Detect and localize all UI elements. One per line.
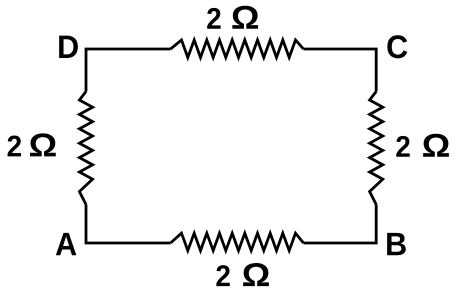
value label 2 Ohm (bottom resistor R3) xyxy=(216,263,269,286)
node D label xyxy=(59,36,78,58)
value label 2 Ohm (top resistor R1) xyxy=(207,6,258,29)
resistor R3 (bottom, 2 ohm, between A and B) xyxy=(171,233,304,250)
node A label xyxy=(56,233,77,255)
wire corner D: left-top corner joining left resistor to top resistor xyxy=(86,49,171,92)
wire corner B: right resistor to bottom resistor xyxy=(304,205,377,244)
node B label xyxy=(387,233,406,255)
wire corner C: top resistor to right resistor xyxy=(304,49,377,92)
resistor R2 (right, 2 ohm, between C and B) xyxy=(370,92,383,205)
value label 2 Ohm (left resistor R4) xyxy=(8,133,56,156)
resistor R1 (top, 2 ohm, between D and C) xyxy=(171,40,304,58)
resistor R4 (left, 2 ohm, between D and A) xyxy=(79,92,92,205)
wire corner A: bottom resistor to left resistor xyxy=(86,205,171,244)
value label 2 Ohm (right resistor R2) xyxy=(396,134,449,157)
node C label xyxy=(387,35,407,58)
